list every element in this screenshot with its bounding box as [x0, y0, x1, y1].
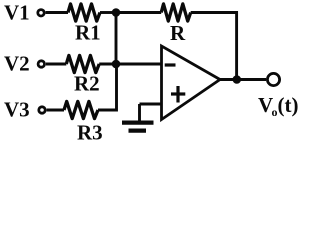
wire V2 terminal to R2 [46, 63, 66, 66]
wire bus node A to node B [115, 13, 118, 65]
node B junction [112, 60, 121, 69]
wire op-amp output to node C [220, 78, 266, 81]
svg-text:(t): (t) [278, 93, 299, 117]
wire R3 up to node B [98, 64, 117, 110]
svg-text:V3: V3 [4, 98, 30, 122]
wire V1 terminal to R1 [46, 11, 68, 14]
wire R1 to node A [100, 11, 116, 14]
resistor R2 [66, 55, 99, 72]
resistor R (feedback) [161, 4, 191, 21]
wire node A to resistor R [116, 11, 161, 14]
wire ground to op-amp non-inverting input [140, 103, 162, 106]
wire V3 terminal to R3 [47, 109, 64, 112]
terminal V1 [38, 10, 44, 16]
op-amp minus sign [165, 63, 176, 66]
terminal V2 [38, 61, 44, 67]
svg-text:R2: R2 [74, 72, 100, 96]
wire R to feedback corner and down to node C [191, 13, 237, 80]
op-amp U1 [162, 46, 221, 120]
node C junction [233, 75, 242, 84]
resistor R3 [64, 101, 98, 118]
svg-text:V2: V2 [4, 52, 30, 76]
node A junction [112, 8, 121, 17]
svg-text:V1: V1 [4, 1, 30, 25]
op-amp plus sign [171, 92, 185, 95]
svg-text:R: R [170, 21, 186, 45]
ground [138, 104, 141, 121]
wire node B to op-amp inverting input [116, 63, 162, 66]
svg-text:R3: R3 [77, 120, 103, 144]
terminal Vo output [267, 73, 279, 85]
wire R2 to node B [99, 63, 116, 66]
svg-text:R1: R1 [75, 21, 101, 45]
terminal V3 [39, 107, 45, 113]
resistor R1 [68, 4, 100, 21]
